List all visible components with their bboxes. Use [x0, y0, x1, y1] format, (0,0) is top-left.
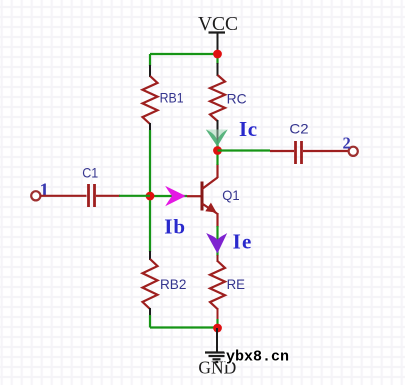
wire left vertical down to RB1 — [149, 54, 151, 66]
svg-text:Ic: Ic — [239, 117, 258, 141]
junction collector node — [213, 146, 222, 155]
svg-text:C2: C2 — [289, 121, 308, 137]
junction VCC node — [213, 50, 222, 59]
resistor RC — [210, 63, 225, 144]
wire emitter vertical — [216, 226, 218, 256]
svg-text:Ie: Ie — [233, 230, 253, 254]
power symbol VCC — [198, 14, 238, 54]
wire top horizontal VCC node — [150, 53, 218, 55]
svg-text:C1: C1 — [82, 165, 98, 181]
wire collector vertical — [216, 151, 218, 166]
wire left vertical RB1 to base node — [149, 130, 151, 196]
svg-text:ybx8.cn: ybx8.cn — [226, 349, 289, 366]
svg-text:RC: RC — [227, 90, 247, 106]
wire C1 to base node — [119, 195, 150, 197]
capacitor C2 — [270, 141, 349, 164]
wire left vertical base node to RB2 — [149, 196, 151, 252]
junction ground node — [213, 324, 222, 333]
wire bottom horizontal — [150, 326, 218, 328]
wire RC top lead from VCC node — [216, 54, 218, 64]
current arrow Ie — [206, 233, 227, 254]
svg-text:Ib: Ib — [164, 215, 186, 239]
svg-text:RB2: RB2 — [160, 276, 187, 292]
resistor RE — [210, 261, 225, 320]
svg-text:RB1: RB1 — [160, 90, 184, 106]
svg-text:2: 2 — [343, 133, 351, 152]
resistor RB1 — [143, 65, 158, 131]
port 2 — [349, 147, 358, 156]
resistor RB2 — [143, 259, 158, 316]
svg-text:Q1: Q1 — [222, 187, 240, 203]
wire RC bottom to collector node — [216, 143, 218, 151]
svg-text:1: 1 — [40, 180, 50, 201]
transistor Q1 — [187, 164, 218, 227]
svg-text:RE: RE — [227, 276, 245, 292]
wire output horizontal — [218, 149, 271, 151]
current arrow Ic — [206, 130, 228, 147]
ground GND — [198, 328, 236, 378]
wire base horizontal — [150, 195, 187, 197]
wire RB2 bottom to ground rail — [149, 315, 151, 328]
capacitor C1 — [40, 184, 120, 207]
junction base node — [146, 192, 155, 201]
port 1 — [31, 191, 40, 200]
wire RE bottom to ground node — [216, 319, 218, 328]
current arrow Ib — [165, 186, 186, 206]
